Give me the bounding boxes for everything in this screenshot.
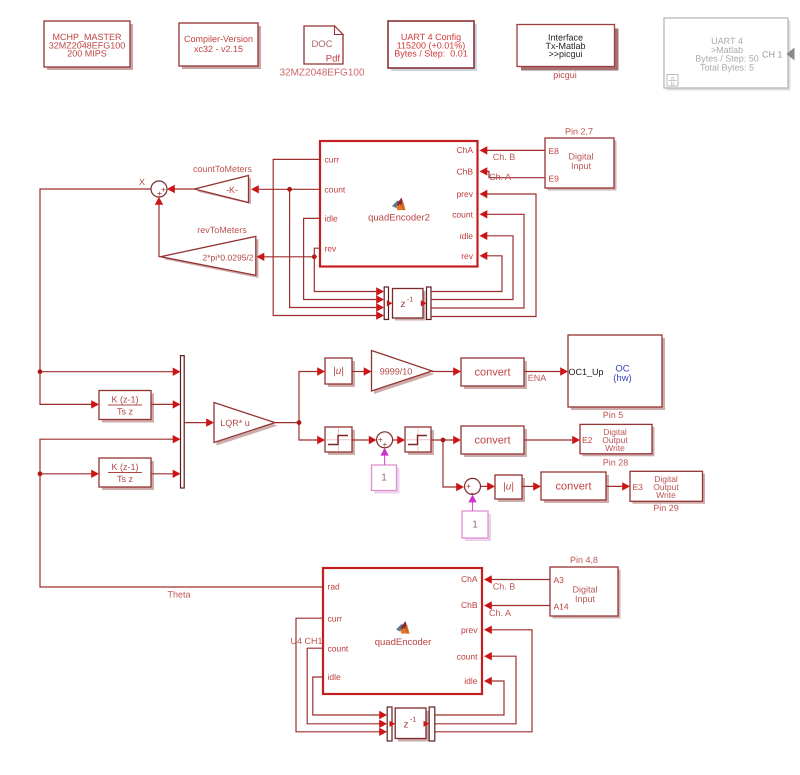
block Digital Output Write 2 [630,471,705,504]
vertical mux (middle) [181,356,185,488]
wire K2 out to mux in4 [151,470,181,478]
demux bar (bottom delay) [429,707,435,741]
wire demux out3 to prev input [435,626,532,732]
svg-text:(hw): (hw) [613,373,631,384]
svg-text:idle: idle [325,214,339,224]
svg-text:Digital: Digital [568,152,593,162]
gain revToMeters [161,236,259,278]
svg-text:curr: curr [328,614,343,624]
wire 9999/10 to convert1 [432,367,461,375]
discrete derivative K2 [99,458,154,490]
magenta wire const1 to sum2 [380,448,388,465]
svg-text:convert: convert [474,367,510,379]
svg-text:Pin 2,7: Pin 2,7 [565,127,593,137]
wire Z-1 to demux [421,300,427,306]
svg-text:LQR* u: LQR* u [220,418,250,428]
wire abs1 to gain 9999/10 [352,367,372,375]
svg-text:Pin 4,8: Pin 4,8 [570,555,598,565]
wire count to countToMeters [251,185,290,193]
svg-text:+: + [382,439,387,449]
svg-text:DOC: DOC [311,39,332,50]
wire K1 out to mux in2 [151,400,181,408]
gain countToMeters [195,176,252,205]
svg-text:prev: prev [461,625,478,635]
sum 3 [465,478,481,497]
wire curr down to mux in4 [273,159,384,319]
wire demux out1 to rev input [431,252,502,292]
junction [38,369,43,374]
svg-text:200 MIPS: 200 MIPS [67,49,107,59]
svg-text:Pdf: Pdf [326,54,341,65]
svg-text:|u|: |u| [333,366,344,377]
svg-text:idle: idle [464,676,478,686]
svg-text:1: 1 [381,473,387,484]
svg-text:A3: A3 [554,575,565,585]
svg-text:Pin 28: Pin 28 [603,458,629,468]
matlab icon [396,621,410,634]
discrete derivative K1 [99,391,154,423]
svg-text:Pin 5: Pin 5 [603,410,624,420]
svg-text:Ts z: Ts z [117,407,134,417]
wire count branch down to mux in3 [287,187,384,312]
wire E8 to ChA [480,146,546,154]
svg-text:1: 1 [472,520,478,531]
svg-text:2*pi*0.0295/2: 2*pi*0.0295/2 [202,253,253,263]
svg-text:ChB: ChB [461,600,478,610]
svg-text:Input: Input [575,594,596,604]
wire sum X output to left and down to mux/K1 [38,189,181,409]
abs |u| 2 [495,475,525,502]
wire sat1 to sum2 [352,436,377,444]
constant 1 (magenta) [372,465,400,494]
svg-text:U4 CH1: U4 CH1 [290,636,322,646]
svg-text:z: z [404,720,409,731]
block DOC Pdf [304,26,343,65]
svg-text:X: X [139,177,145,187]
block Digital Input Pin 4,8 [550,567,621,619]
svg-text:Write: Write [605,443,625,453]
svg-text:curr: curr [325,155,340,165]
svg-text:9999/10: 9999/10 [380,367,413,377]
svg-text:count: count [325,185,346,195]
svg-text:Ch. A: Ch. A [489,172,511,182]
svg-text:+: + [157,189,162,199]
demux bar (top delay) [427,287,432,320]
wire E9 to ChB [480,167,546,178]
svg-text:convert: convert [474,435,510,447]
svg-text:idle: idle [328,672,342,682]
svg-text:CH 1: CH 1 [762,50,783,60]
wire demux out3 to count input [431,210,524,308]
wire sum3 to abs2 [481,482,495,490]
svg-text:Ts z: Ts z [117,474,134,484]
block Interface Tx-Matlab [517,25,619,71]
svg-text:count: count [452,210,473,220]
svg-text:xc32 - v2.15: xc32 - v2.15 [194,44,243,54]
wire convert3 to DOW2 [606,482,630,490]
svg-text:|u|: |u| [503,482,514,493]
wire curr down to bottom mux in3 [296,618,387,736]
svg-text:ChA: ChA [456,145,473,155]
svg-text:E3: E3 [633,482,644,492]
svg-text:Ch. B: Ch. B [493,152,516,162]
wire LQR out split to abs1 and sat1 [275,367,325,444]
svg-text:quadEncoder2: quadEncoder2 [368,213,430,224]
svg-text:count: count [328,644,349,654]
svg-text:ENA: ENA [528,373,547,383]
svg-text:picgui: picgui [553,70,577,80]
convert 1 [461,358,527,389]
block Compiler-Version [179,23,261,69]
wire sat2 to convert2 and branch to sum3 [431,436,464,491]
svg-text:Theta: Theta [167,590,190,600]
wire mux out to LQR [184,418,214,426]
constant 1b (magenta) [462,511,491,541]
svg-text:-1: -1 [407,297,413,304]
convert 2 [461,426,527,457]
wire Z-1 to demux bottom [424,721,430,727]
sum 2 [377,432,393,450]
block UART 4 >Matlab (gray) [664,18,795,91]
svg-text:countToMeters: countToMeters [193,164,253,174]
svg-text:A14: A14 [554,602,569,612]
mux bar (top delay) [384,287,388,320]
svg-text:Write: Write [656,490,676,500]
wire countToMeters to sum X [167,185,195,193]
convert 3 [541,472,609,503]
unit delay Z^-1 (top) [393,289,426,321]
unconnected input arrow [787,48,795,61]
magenta wire const1b to sum3 [468,495,476,511]
svg-text:OC1_Up: OC1_Up [569,367,604,377]
svg-text:ChA: ChA [461,574,478,584]
block quadEncoder [323,568,482,694]
svg-text:Ch. B: Ch. B [493,582,516,592]
wire abs2 to convert3 [522,482,541,490]
svg-text:Digital: Digital [572,585,597,595]
block UART 4 Config [388,21,477,71]
svg-text:E2: E2 [582,435,593,445]
svg-text:-K-: -K- [226,185,238,195]
gain LQR* u [214,403,278,446]
wire rev down to mux in1 [314,248,384,296]
wire convert2 to DOW1 [524,436,580,444]
gain 9999/10 [372,351,435,395]
svg-text:-1: -1 [410,717,416,724]
sum X [151,181,167,199]
wire demux out2 to idle input [431,232,513,300]
svg-text:ChB: ChB [456,167,473,177]
block Digital Input Pin 2,7 [545,138,617,191]
svg-text:>>picgui: >>picgui [548,49,582,59]
abs |u| 1 [325,358,355,387]
block Digital Output Write 1 [580,424,655,456]
block MCHP_MASTER [44,21,133,70]
svg-text:Total Bytes: 5: Total Bytes: 5 [700,62,754,72]
svg-text:convert: convert [555,481,591,493]
wire revToMeters output up to sum X [155,197,163,257]
svg-text:b: b [671,82,674,88]
svg-text:prev: prev [456,189,473,199]
svg-text:rev: rev [325,244,338,254]
svg-text:Bytes / Step: 0.01: Bytes / Step: 0.01 [394,49,468,59]
wire count down to bottom mux in2 [307,648,387,728]
matlab icon [392,198,406,211]
wire mux to Z-1 bottom [390,721,396,727]
svg-text:z: z [401,299,406,310]
svg-text:Ch. A: Ch. A [489,608,511,618]
svg-text:quadEncoder: quadEncoder [375,637,432,648]
svg-text:Compiler-Version: Compiler-Version [184,34,253,44]
svg-text:rad: rad [328,582,341,592]
svg-text:E9: E9 [549,174,560,184]
svg-text:Input: Input [571,161,592,171]
mux bar (bottom delay) [387,707,392,741]
svg-text:revToMeters: revToMeters [197,225,247,235]
wire A3 to ChA bottom [484,575,550,583]
wire mux to Z-1 [387,300,393,306]
wire sum2 to sat2 [393,436,405,444]
unit delay Z^-1 (bottom) [395,708,429,742]
wire convert1 to OC1_Up [524,367,568,375]
block quadEncoder2 [320,141,478,267]
svg-text:idle: idle [460,231,474,241]
wire idle down to mux in2 [304,218,384,303]
wire demux out1 to idle input [435,677,504,715]
svg-text:32MZ2048EFG100: 32MZ2048EFG100 [279,68,364,79]
svg-text:count: count [457,652,478,662]
saturation 1 [325,427,355,455]
svg-text:rev: rev [461,251,474,261]
svg-text:K (z-1): K (z-1) [112,462,139,472]
saturation 2 [405,427,434,455]
block OC1_Up (OC hw) [568,335,665,410]
svg-text:E8: E8 [549,146,560,156]
svg-text:Pin 29: Pin 29 [653,503,679,513]
wire A14 to ChB bottom [484,601,550,609]
fraction icon [667,75,678,88]
wire idle down to bottom mux in1 [313,677,387,719]
wire rev to revToMeters [257,253,317,261]
svg-text:K (z-1): K (z-1) [112,395,139,405]
wire Theta from rad up to mux in3 and K2 [38,435,323,587]
wire demux out4 to prev input [431,190,536,317]
wire demux out2 to count input [435,652,516,724]
